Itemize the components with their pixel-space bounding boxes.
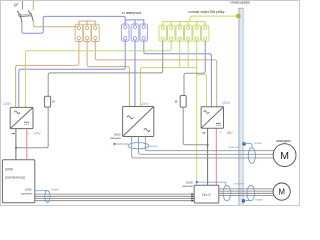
junction at PSU1 minus (15, 147, 17, 149)
wire: tan neutral feed from top to QF (32, 1, 34, 10)
resistor R1 (44, 96, 50, 107)
GND dot Drv X (196, 181, 198, 183)
svg-text:от инвертора: от инвертора (122, 11, 142, 15)
wire: TB3 pole6 gray to resistor R2 (184, 40, 205, 95)
svg-text:экран: экран (149, 144, 157, 148)
wire: TB1 pole1 to PSU1 (220V line) (16, 40, 79, 108)
terminal block TB3 (lime DIN) (159, 25, 209, 41)
shield ellipse PSU2 output (128, 143, 149, 149)
wall connector pad motor X (242, 199, 245, 202)
svg-text:контакт через DIN рейку: контакт через DIN рейку (189, 10, 225, 14)
svg-text:220V: 220V (222, 101, 231, 105)
svg-text:220V: 220V (3, 102, 12, 106)
minus marker PSU1 (12, 133, 15, 135)
svg-text:220V: 220V (141, 102, 150, 106)
svg-text:стена шкафа: стена шкафа (230, 0, 250, 4)
svg-text:48V: 48V (227, 131, 234, 135)
wire: PE run to PSU2 (140, 68, 196, 107)
BOB controller box (2, 160, 34, 203)
svg-text:экран: экран (254, 141, 262, 145)
shield leader motor X (243, 200, 251, 202)
svg-text:разъем: разъем (110, 136, 121, 140)
ribbon arrowheads at Drv X (191, 193, 194, 202)
svg-text:экран: экран (51, 188, 59, 192)
motor spindle (273, 144, 296, 167)
shield leader spindle (243, 143, 252, 148)
wire: blue from QF to terminal block TB2 pole1 (22, 16, 125, 33)
breaker QF (17, 10, 33, 22)
svg-text:разъем: разъем (234, 182, 245, 186)
svg-text:M: M (280, 150, 289, 162)
wire: TB2 pole3 to PSU3 (144, 40, 212, 107)
terminal block TB2 (blue) (121, 24, 147, 41)
minus marker PSU3 (202, 132, 205, 134)
wire: R1 to PSU1 minus (16, 107, 48, 148)
shield leader Drv X (198, 182, 226, 185)
motor X (273, 183, 290, 200)
svg-text:+: + (220, 131, 222, 135)
svg-text:24V: 24V (34, 131, 41, 135)
power supply PSU2 (spindle inverter) (123, 107, 154, 137)
svg-text:M: M (278, 188, 285, 197)
svg-text:Drv X: Drv X (202, 193, 211, 197)
svg-text:шпиндель: шпиндель (276, 139, 291, 143)
svg-text:разъем: разъем (228, 145, 239, 149)
wire: blue bus on TB2 (125, 20, 144, 25)
shield ellipse after Drv X (223, 185, 231, 200)
svg-text:разъем: разъем (182, 184, 193, 188)
motor wires Drv X to motor X (219, 189, 274, 196)
wire: tan from QF to terminal block TB1 pole1 (33, 21, 77, 27)
wire: R2 to PSU3 minus (183, 107, 207, 144)
svg-text:+: + (27, 131, 29, 135)
cabinet wall bar (стена шкафа) (238, 8, 243, 206)
driver box Drv X (194, 185, 219, 203)
wire: PSU3 minus to Drv X (207, 128, 209, 185)
PSU2 output stubs to spindle (132, 137, 275, 158)
GND dot PSU2 (114, 143, 116, 145)
ribbon BOB to Drv X (35, 194, 194, 201)
contact pad on wall (236, 14, 240, 18)
shield ellipse spindle (248, 148, 255, 164)
wire: TB3 pole4 drop to PE run (187, 40, 189, 67)
shield ellipse after wall (motor X) (247, 185, 255, 200)
page frame (1, 1, 300, 206)
power supply PSU1 (24V) (10, 107, 33, 128)
shield ellipse BOB ribbon (45, 191, 50, 203)
wire: TB1 pole3 to PSU3 (95, 40, 216, 107)
spindle wall connector pad (243, 142, 246, 145)
power supply PSU3 (48V) (201, 107, 223, 128)
wire: TB2 pole1 to PSU1 (19, 40, 125, 107)
wire: blue phase feed from top to QF (22, 1, 24, 10)
wire: lime bus on TB3 (DIN rail) (163, 22, 206, 27)
wire: DIN rail contact to cabinet wall (190, 16, 237, 22)
wire: tan bus on TB1 (79, 21, 95, 26)
svg-text:(контроллер): (контроллер) (5, 175, 24, 179)
wire: PSU1 minus to BOB (15, 129, 17, 160)
junction at PSU3 minus (207, 144, 209, 146)
wire: TB3 pole2 to PSU1 (PE) (25, 40, 171, 107)
shield leader BOB (35, 190, 47, 192)
terminal block TB1 (tan) (75, 24, 99, 41)
wire: PE branch to PSU3 (197, 75, 207, 107)
svg-text:разъем: разъем (21, 191, 32, 195)
wire: PSU3 +48V to Drv X (215, 128, 217, 185)
shield leader PSU2 (115, 143, 128, 145)
resistor R2 (180, 96, 186, 108)
svg-text:BOB: BOB (5, 167, 13, 171)
svg-text:экран: экран (255, 197, 263, 201)
wire: TB3 pole1 gray to resistor R1 (48, 40, 163, 96)
wire: PSU1 +24V to BOB (26, 129, 28, 160)
wire: TB2 pole2 to PSU2 (134, 40, 136, 107)
wire: TB1 pole2 to PSU2 (87, 40, 129, 107)
wire: TB3 pole5 down to driver Drv X (196, 40, 198, 185)
wire: TB3 pole3 drop to PE run (179, 40, 181, 67)
